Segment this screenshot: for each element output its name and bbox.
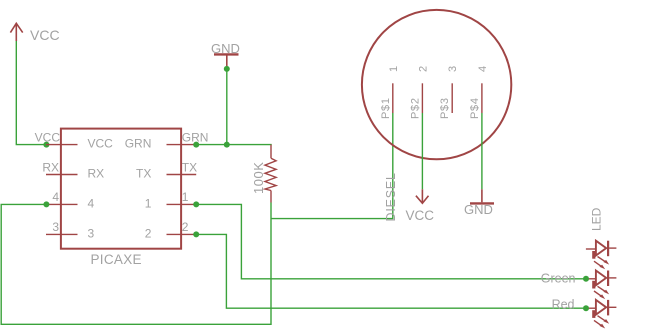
junction dot at Green LED anode xyxy=(583,276,589,282)
resistor R1 100K xyxy=(265,145,276,203)
svg-text:PICAXE: PICAXE xyxy=(91,252,142,267)
pin P$4 of DIESEL xyxy=(481,83,483,113)
svg-text:3: 3 xyxy=(88,226,95,240)
LED D3 Red xyxy=(586,300,617,329)
connector J1 DIESEL (circle body) xyxy=(362,10,511,159)
svg-text:RX: RX xyxy=(42,160,59,174)
pin 2 of PICAXE (right, row 4) xyxy=(167,233,197,235)
pin P$1 of DIESEL xyxy=(392,83,394,113)
pin GRN of PICAXE (right, row 1) xyxy=(167,144,197,146)
pin P$2 of DIESEL xyxy=(421,83,423,113)
svg-text:P$4: P$4 xyxy=(469,97,481,119)
pin RX of PICAXE (left, row 2) xyxy=(46,174,78,176)
supply symbol VCC (top-left arrow) xyxy=(10,23,22,41)
supply symbol GND (under DIESEL) xyxy=(470,189,494,203)
svg-text:TX: TX xyxy=(136,167,151,181)
svg-text:GRN: GRN xyxy=(125,137,152,151)
svg-text:P$1: P$1 xyxy=(380,97,392,119)
svg-text:100K: 100K xyxy=(251,162,266,194)
svg-text:P$2: P$2 xyxy=(409,97,421,119)
supply symbol GND (top) xyxy=(214,54,239,66)
supply symbol VCC (down arrow under DIESEL) xyxy=(416,189,429,203)
svg-text:4: 4 xyxy=(477,66,489,72)
junction dot at PICAXE GRN pin xyxy=(193,142,199,148)
svg-text:DIESEL: DIESEL xyxy=(384,172,398,221)
svg-text:GND: GND xyxy=(464,202,493,217)
pin name labels inside PICAXE xyxy=(88,137,152,241)
svg-text:Green: Green xyxy=(541,272,576,286)
svg-text:VCC: VCC xyxy=(30,27,60,43)
junction dot at PICAXE pin 4 xyxy=(43,201,49,207)
wire PICAXE pin 2 to Red LED xyxy=(196,234,586,308)
svg-text:VCC: VCC xyxy=(35,130,61,144)
pin TX of PICAXE (right, row 2) xyxy=(167,174,197,176)
IC U1 PICAXE body xyxy=(61,129,181,249)
svg-text:3: 3 xyxy=(447,66,459,72)
pin P$3 of DIESEL xyxy=(451,83,453,113)
svg-text:1: 1 xyxy=(145,196,152,210)
junction dot at PICAXE VCC pin xyxy=(43,142,49,148)
junction dot at Red LED anode xyxy=(583,305,589,311)
wire VCC net from arrow to PICAXE VCC pin xyxy=(16,41,46,145)
wire PICAXE pin 1 to Green LED xyxy=(196,204,586,278)
svg-text:GND: GND xyxy=(211,41,240,56)
LED D2 Green xyxy=(586,271,617,300)
svg-text:2: 2 xyxy=(145,226,152,240)
svg-text:1: 1 xyxy=(182,190,189,204)
wire net: resistor bottom down, across bottom, up to PICAXE pin 4 xyxy=(1,203,271,325)
pin 1 of PICAXE (right, row 3) xyxy=(167,203,197,205)
svg-text:4: 4 xyxy=(52,190,59,204)
junction dot at PICAXE pin 2 xyxy=(193,231,199,237)
net labels outside PICAXE right xyxy=(182,130,209,234)
wire GRN net from PICAXE to resistor top xyxy=(196,144,272,146)
junction dot GRN net / GND wire xyxy=(224,142,230,148)
svg-text:RX: RX xyxy=(88,167,105,181)
junction dot at PICAXE pin 1 xyxy=(193,201,199,207)
svg-text:LED: LED xyxy=(589,207,603,231)
wire branch to DIESEL pin 1 xyxy=(271,113,393,219)
svg-text:2: 2 xyxy=(182,220,189,234)
svg-text:VCC: VCC xyxy=(406,208,435,223)
wire DIESEL pin 4 to GND symbol xyxy=(481,113,483,189)
svg-text:4: 4 xyxy=(88,196,95,210)
svg-text:Red: Red xyxy=(552,298,575,312)
svg-text:3: 3 xyxy=(52,220,59,234)
wire DIESEL pin 2 to VCC symbol xyxy=(421,113,423,189)
junction dot below top GND symbol xyxy=(224,66,230,72)
svg-text:2: 2 xyxy=(417,66,429,72)
pin VCC of PICAXE (left, row 1) xyxy=(46,144,78,146)
net labels outside PICAXE left xyxy=(35,130,61,234)
pin 3 of PICAXE (left, row 4) xyxy=(46,233,78,235)
svg-text:1: 1 xyxy=(388,66,400,72)
svg-text:VCC: VCC xyxy=(88,137,114,151)
LED D1 (top, unconnected) xyxy=(586,241,617,270)
wire from GND symbol down to GRN net xyxy=(226,67,228,145)
svg-text:P$3: P$3 xyxy=(439,97,451,119)
pin 4 of PICAXE (left, row 3) xyxy=(46,203,78,205)
svg-text:TX: TX xyxy=(182,160,197,174)
